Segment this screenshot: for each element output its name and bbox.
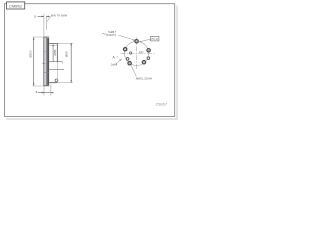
thickness dim arrows [38,16,50,18]
thread note leader [131,65,136,76]
disc section dark band [47,38,49,85]
drawing sheet shadow [6,6,177,120]
title box [7,2,25,9]
friction band tick upper [44,51,46,53]
bolt hole 1 top [135,40,138,43]
svg-text:M8X1.25-6H: M8X1.25-6H [136,77,152,81]
small hole lower right [147,57,150,60]
bolt circle [125,41,149,65]
hub flange inner line [49,44,57,46]
small hole center left [130,52,132,54]
thickness extension lines top [43,14,45,37]
small hole lower left [126,58,129,61]
dimension disc OD [33,37,35,86]
bolt hole 5 right [147,49,150,52]
bolt hole 2 upper left [124,48,127,51]
hub hat section [49,44,57,83]
dimension hub bore [52,44,54,62]
svg-text:2xM8: 2xM8 [111,64,118,67]
height dimension [38,92,54,94]
lug note text [106,31,116,37]
hub extension line bottom [57,82,73,84]
svg-text:MIN TH 8MM: MIN TH 8MM [51,14,67,18]
lug note squiggle [102,33,106,34]
centerline vertical [136,38,138,70]
bore step line lower [48,68,64,70]
sheet border frame [5,4,175,117]
disc section mid band [46,38,48,86]
disc top cap [44,36,49,38]
svg-text:Ø80: Ø80 [64,51,68,57]
svg-text:CM861: CM861 [9,3,22,8]
hub right face lower (faint) [56,62,58,83]
vent hole mark [55,79,58,82]
disc bottom cap [44,85,49,87]
min thickness leader [47,16,50,21]
pcd leader [139,39,151,42]
OD extension top [33,36,44,38]
svg-text:Ø256: Ø256 [28,50,32,57]
bolt hole 3 lower left [128,62,131,65]
disc left face [43,37,45,86]
bore step line upper [49,61,62,63]
OD extension bottom [33,85,44,87]
svg-text:Ø13x8.5: Ø13x8.5 [106,34,116,37]
svg-text:P.C.D: P.C.D [152,38,159,41]
svg-text:23867: 23867 [156,102,168,107]
dimension hub OD [70,43,72,83]
bolt circle dashes [125,41,149,65]
lug note leader [119,35,136,41]
bore step tick [61,62,63,64]
datum A tick [116,56,118,58]
bolt hole 4 lower right [142,61,145,64]
height extension lines bottom [43,86,45,96]
hub extension line top [57,43,73,45]
friction band tick lower [44,71,49,73]
centerline horizontal [42,62,49,64]
centerline horizontal [121,53,155,55]
small hole leader [116,59,122,64]
svg-text:Ø58: Ø58 [53,49,57,55]
svg-text:Ø30: Ø30 [139,51,144,54]
pcd box label [151,36,159,41]
